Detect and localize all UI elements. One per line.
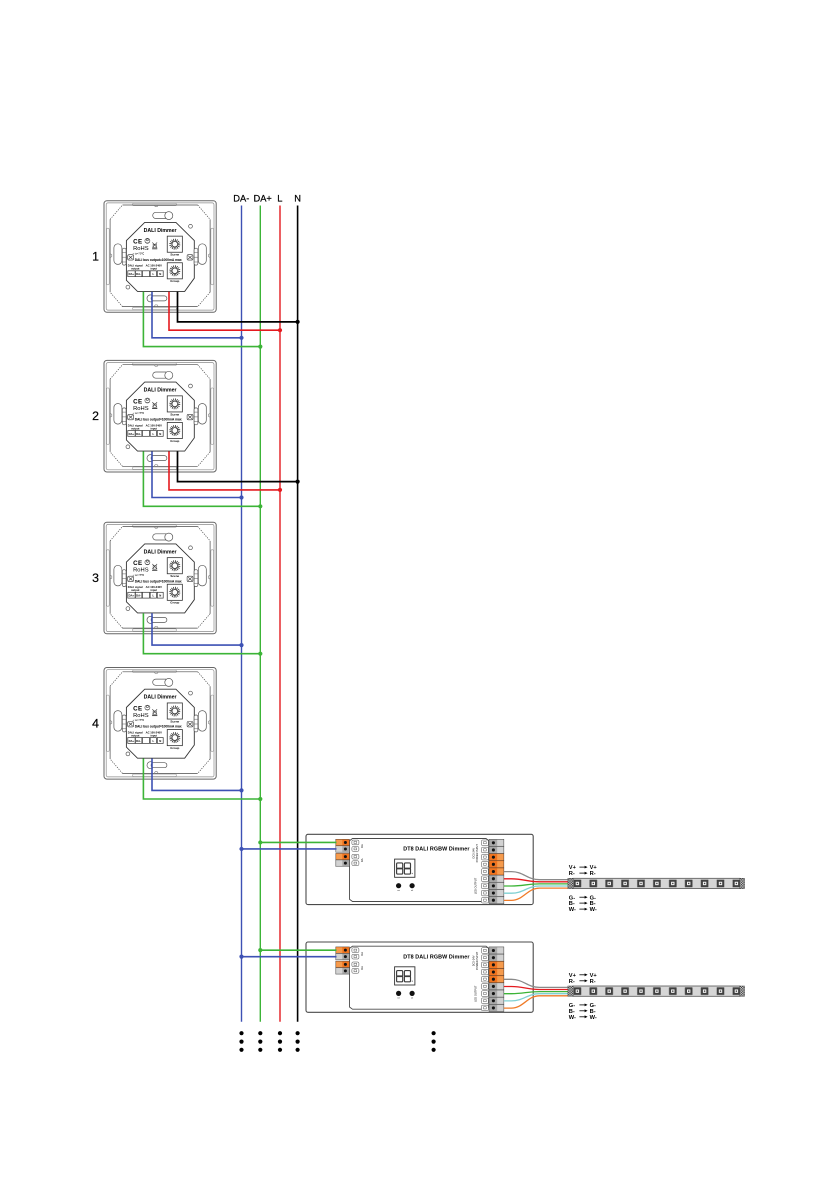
bus continuation dots [239,1031,435,1052]
svg-text:DA-: DA- [233,194,249,204]
junction L panel 1 [278,328,282,332]
DA- bus wire [241,206,243,1022]
wire DA+ panel 2 [143,451,260,506]
junction DA+ panel 1 [258,345,262,349]
svg-text:N: N [294,194,301,204]
wire DA- panel 2 [152,451,242,497]
wire DA- panel 1 [152,292,242,338]
junction N panel 1 [296,320,300,324]
junction DA- module 2 [239,955,243,959]
svg-text:1: 1 [92,250,99,264]
DALI Dimmer panel 2 [104,360,216,472]
DALI Dimmer panel 4 [104,668,216,780]
svg-text:4: 4 [92,716,99,730]
junction L panel 2 [278,488,282,492]
DA+ bus wire [259,206,261,1022]
wire DA- to module 1 [242,848,337,850]
wire N panel 2 [178,451,298,481]
wire N panel 1 [178,292,298,322]
wire DA+ panel 4 [143,759,260,800]
junction DA+ panel 4 [258,797,262,801]
svg-text:2: 2 [92,409,99,423]
junction N panel 2 [296,480,300,484]
junction DA- module 1 [239,847,243,851]
junction DA- panel 4 [239,788,243,792]
junction DA+ module 2 [258,948,262,952]
junction DA+ panel 3 [258,652,262,656]
DALI Dimmer panel 3 [104,522,216,634]
wire DA+ to module 1 [260,841,336,843]
svg-text:3: 3 [92,571,99,585]
svg-text:L: L [277,194,282,204]
wire DA+ panel 1 [143,292,260,347]
wire DA- panel 4 [152,759,242,791]
wire L panel 2 [169,451,280,490]
svg-text:DA+: DA+ [254,194,272,204]
DALI Dimmer panel 1 [104,201,216,313]
wire DA- panel 3 [152,613,242,645]
DT8 DALI RGBW Dimmer module 2 with LED strip [306,942,745,1021]
L bus wire [279,206,281,1022]
wire DA- to module 2 [242,956,337,958]
wire L panel 1 [169,292,280,331]
DT8 DALI RGBW Dimmer module 1 with LED strip [306,834,745,913]
junction DA+ module 1 [258,840,262,844]
N bus wire [297,206,299,1022]
wire DA+ to module 2 [260,949,336,951]
junction DA- panel 3 [239,643,243,647]
junction DA- panel 1 [239,336,243,340]
wire DA+ panel 3 [143,613,260,654]
junction DA+ panel 2 [258,504,262,508]
junction DA- panel 2 [239,495,243,499]
